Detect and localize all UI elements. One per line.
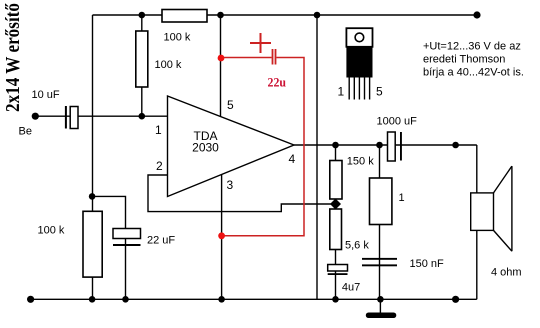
capacitor C 4u7 feedback	[328, 265, 348, 276]
svg-text:150 k: 150 k	[347, 156, 374, 168]
node junction top rail pin5	[217, 12, 224, 19]
svg-text:22u: 22u	[268, 75, 287, 90]
node junction bottom 22uF	[122, 296, 129, 303]
node junction bottom ground stub	[377, 296, 384, 303]
capacitor C 22u bootstrap red	[221, 33, 304, 236]
transistor U1 package TO-220	[338, 28, 384, 99]
svg-text:150 nF: 150 nF	[410, 258, 445, 270]
wire supply down line	[316, 15, 318, 299]
svg-text:4u7: 4u7	[342, 282, 360, 294]
svg-text:2030: 2030	[192, 141, 219, 155]
resistor R2 100k vertical	[136, 31, 148, 87]
svg-text:10 uF: 10 uF	[32, 89, 60, 101]
node junction output zobel	[376, 142, 383, 149]
node bottom rail left terminal	[27, 296, 34, 303]
wire zobel branch	[379, 145, 381, 299]
wire red left segment	[221, 57, 272, 59]
wire red right and down	[222, 58, 304, 236]
svg-text:1000 uF: 1000 uF	[377, 115, 418, 127]
node red junction pin3 wire	[218, 232, 225, 239]
wire input line	[35, 115, 167, 117]
capacitor C 1000uF output	[388, 132, 402, 161]
node junction input R2	[139, 113, 146, 120]
pin lines	[348, 78, 350, 100]
svg-text:1: 1	[338, 85, 345, 99]
ground	[366, 299, 397, 318]
node junction bottom speaker return	[452, 296, 459, 303]
svg-text:22 uF: 22 uF	[147, 235, 175, 247]
node junction top rail R2	[139, 12, 146, 19]
resistor R5 5.6k feedback	[330, 209, 342, 250]
node +Ut supply terminal	[473, 11, 480, 18]
wire bottom ground rail	[31, 298, 477, 300]
node junction bottom 4u7	[332, 296, 339, 303]
resistor R6 1 ohm zobel	[370, 178, 392, 225]
svg-text:1: 1	[155, 123, 162, 137]
wire bias to 22uF	[92, 196, 125, 299]
node junction output speaker	[452, 142, 459, 149]
node junction output 150k	[332, 142, 339, 149]
op-amp U1 TDA2030 triangle	[168, 96, 295, 197]
svg-text:100 k: 100 k	[155, 59, 182, 71]
resistor R3 100k bottom left	[83, 211, 102, 277]
svg-text:5,6 k: 5,6 k	[345, 240, 369, 252]
svg-text:4: 4	[289, 152, 296, 166]
node junction bias 22uF	[89, 193, 96, 200]
node Be input terminal	[32, 113, 39, 120]
svg-text:3: 3	[227, 178, 234, 192]
red plus polarity mark	[250, 42, 271, 44]
svg-text:1: 1	[399, 192, 405, 204]
wire speaker bottom	[476, 230, 478, 299]
svg-text:+Ut=12...36 V de az: +Ut=12...36 V de az	[423, 41, 521, 53]
svg-text:eredeti Thomson: eredeti Thomson	[423, 54, 505, 66]
resistor R4 150k feedback	[330, 161, 342, 200]
capacitor C 22uF bias	[113, 229, 141, 247]
svg-text:bírja a 40...42V-ot is.: bírja a 40...42V-ot is.	[423, 67, 524, 79]
wire R2 branch vertical	[141, 15, 143, 116]
wire 150k branch	[335, 145, 337, 299]
capacitor C 10uF input	[65, 106, 78, 129]
wire pin2 feedback	[148, 175, 336, 212]
red cap plates	[272, 49, 274, 65]
node junction top rail supply down	[314, 12, 321, 19]
svg-text:100 k: 100 k	[38, 225, 65, 237]
node junction bottom pin3	[218, 296, 225, 303]
node junction feedback diamond	[330, 198, 341, 209]
speaker LS 4 ohm	[471, 166, 512, 251]
node junction bottom R3	[89, 296, 96, 303]
capacitor C 150nF zobel	[362, 258, 397, 266]
wire output line	[294, 144, 477, 146]
svg-text:5: 5	[227, 98, 234, 112]
node red junction pin5 wire	[218, 55, 225, 62]
svg-text:Be: Be	[19, 126, 32, 138]
svg-text:2x14 W erősítő: 2x14 W erősítő	[3, 3, 24, 112]
wire pin3 down	[221, 175, 223, 300]
note text supply voltage	[423, 41, 524, 79]
resistor R1 100k horizontal top	[162, 10, 207, 23]
svg-text:4 ohm: 4 ohm	[491, 266, 522, 278]
wire speaker top	[476, 145, 478, 193]
wire pin5 supply	[220, 15, 222, 117]
wire top supply rail	[93, 14, 478, 16]
wire left bias branch vertical	[92, 15, 94, 299]
svg-text:5: 5	[376, 85, 383, 99]
svg-text:100 k: 100 k	[164, 32, 191, 44]
svg-text:2: 2	[156, 159, 163, 173]
